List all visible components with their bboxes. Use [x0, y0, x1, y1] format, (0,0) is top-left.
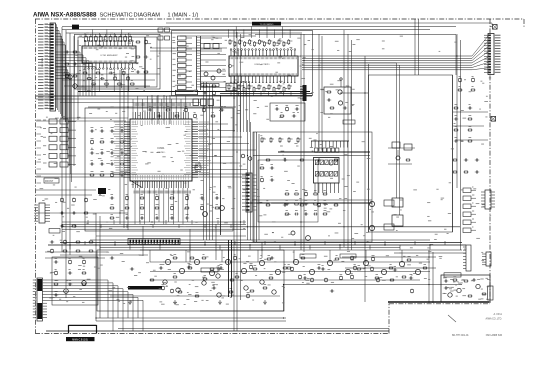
- part value label: [156, 118, 158, 120]
- part value label: [170, 255, 173, 257]
- part label: [156, 203, 159, 205]
- part value label: [46, 198, 49, 200]
- IC601 inner pin number: [180, 121, 182, 126]
- wire IC701 pin drop 5: [113, 33, 115, 37]
- part value label: [434, 238, 437, 240]
- part value label: [232, 294, 234, 296]
- part value label: [282, 272, 285, 274]
- part value label: [264, 258, 266, 260]
- connector CN501 pin 13: [45, 58, 51, 60]
- CN401 pin 3: [45, 209, 50, 211]
- part value label: [230, 297, 232, 299]
- comb tick 2: [314, 141, 316, 148]
- amp rail wire 3: [150, 279, 420, 281]
- part value label: [87, 89, 91, 91]
- part value label: [150, 58, 152, 60]
- part value label: [306, 282, 309, 284]
- switch S606 body b: [60, 162, 68, 167]
- IC601 right pin label: [199, 133, 208, 135]
- part label: [318, 263, 321, 265]
- wire IC601 top pin wire 1: [132, 99, 134, 112]
- part value label: [400, 209, 402, 211]
- IC601 inner pin number: [166, 121, 168, 126]
- part value label: [330, 164, 332, 166]
- part value label: [298, 55, 301, 57]
- resistor: [83, 72, 86, 74]
- junction: [261, 249, 262, 250]
- wire IC701 bottom drop 6: [121, 69, 123, 88]
- part value label: [115, 112, 117, 114]
- part value label: [260, 135, 262, 137]
- resistor: [140, 207, 143, 209]
- part label: [167, 105, 170, 107]
- part value label: [352, 43, 355, 45]
- part value label: [259, 201, 262, 203]
- part value label: [177, 288, 179, 290]
- IC801 bottom pin 14: [276, 76, 278, 83]
- IC601 top pin 6: [144, 112, 146, 119]
- electrolytic capacitor: [114, 77, 117, 80]
- IC601 right pin 4: [192, 128, 198, 130]
- part value label: [287, 180, 290, 182]
- connector CN501 pin 25: [45, 93, 51, 95]
- part value label: [92, 83, 95, 85]
- part value label: [254, 99, 257, 101]
- part value label: [120, 210, 123, 212]
- IC901 cell 3: [325, 160, 329, 165]
- ground: [174, 300, 176, 302]
- capacitor: [140, 217, 142, 220]
- part value label: [386, 255, 389, 257]
- part value label: [138, 272, 141, 274]
- part value label: [177, 150, 180, 152]
- part label: [186, 203, 188, 205]
- part value label: [125, 183, 127, 185]
- part value label: [125, 56, 127, 58]
- electrolytic capacitor: [318, 204, 321, 207]
- wire v39: [95, 213, 97, 321]
- transistor Q234: [217, 293, 221, 297]
- part label: [261, 163, 264, 165]
- CN301 pin 2: [133, 240, 135, 244]
- IF module box 3: [208, 99, 214, 106]
- IC901 pin 5: [330, 183, 332, 193]
- resistor: [407, 259, 410, 261]
- resistor R703: [99, 37, 102, 42]
- IC601 right pin 1: [192, 121, 198, 123]
- wire IC801 top drop 9: [289, 30, 291, 39]
- part value label: [106, 151, 109, 153]
- part label: [286, 104, 289, 106]
- IC701 bottom pin 10: [117, 63, 119, 68]
- switch S601 body b: [60, 119, 68, 124]
- IC901 body: [314, 158, 340, 184]
- Q902 label box: [384, 224, 394, 230]
- resistor: [100, 141, 103, 143]
- part value label: [209, 188, 211, 190]
- part value label: [90, 251, 92, 253]
- part value label: [62, 230, 65, 232]
- resistor: [279, 138, 281, 142]
- CN501 pin label 16: [38, 67, 44, 69]
- resistor: [267, 258, 270, 260]
- switch S603 body b: [60, 136, 68, 141]
- capacitor: [321, 268, 323, 271]
- IC601 bottom pin 19: [175, 181, 177, 188]
- svg-text:FRONT: FRONT: [45, 180, 54, 183]
- wire v3: [69, 33, 71, 255]
- part value label: [217, 99, 220, 101]
- part value label: [62, 216, 64, 218]
- part value label: [241, 36, 245, 38]
- transistor Q904: [291, 231, 295, 235]
- capacitor: [393, 269, 395, 272]
- CN402 pin 4: [43, 288, 48, 290]
- board outline top-right drop: [523, 19, 525, 27]
- small box top 1: [158, 28, 163, 32]
- part label: [43, 119, 46, 121]
- resistor: [254, 42, 256, 46]
- part value label: [279, 80, 283, 82]
- cable bus tie: [197, 44, 201, 46]
- IC601 bottom pin 13: [161, 181, 163, 188]
- wire IC601 right pin wire 1: [198, 123, 228, 125]
- part label: [299, 138, 301, 140]
- IC701 top pin 8: [110, 42, 112, 46]
- resistor: [375, 277, 378, 279]
- part value label: [71, 204, 74, 206]
- IC701 bottom pin 3: [91, 63, 93, 68]
- resistor: [100, 174, 103, 176]
- wire v17: [233, 30, 235, 331]
- IC901 mid cell 6: [336, 148, 339, 152]
- resistor: [173, 257, 176, 259]
- wire under IC801 b: [220, 92, 312, 94]
- resistor: [235, 276, 238, 278]
- IC601 inner pin number: [132, 174, 138, 176]
- pin number row: [229, 57, 231, 59]
- transistor Q214: [399, 261, 404, 266]
- resistor: [295, 203, 298, 205]
- CN302 pin 4: [300, 95, 303, 97]
- wire h8 dark: [278, 151, 370, 153]
- part value label: [344, 154, 348, 156]
- IC601 left pin 3: [124, 126, 130, 128]
- part value label: [382, 279, 386, 281]
- part value label: [447, 233, 449, 235]
- part label: [296, 104, 299, 106]
- part value label: [300, 88, 302, 90]
- part value label: [183, 110, 185, 112]
- part value label: [469, 91, 472, 93]
- IC601 inner pin number: [137, 175, 139, 180]
- part value label: [311, 49, 313, 51]
- IC901 cell 9: [329, 172, 333, 177]
- CN501 pin label 1: [38, 24, 44, 26]
- part value label: [260, 64, 263, 66]
- wire v30: [368, 64, 370, 232]
- IC701 bottom pin 6: [102, 63, 104, 68]
- resistor: [263, 287, 266, 289]
- part label: [156, 193, 158, 195]
- resistor: [402, 276, 405, 278]
- part value label: [230, 162, 232, 164]
- part value label: [340, 275, 342, 277]
- left margin label 7: [37, 161, 42, 163]
- IC601 inner pin number: [132, 126, 139, 128]
- part label: [459, 85, 461, 87]
- part value label: [481, 288, 483, 290]
- part value label: [328, 268, 331, 270]
- wire stub: [129, 245, 131, 250]
- resistor: [269, 277, 272, 279]
- electrolytic capacitor: [250, 266, 253, 269]
- transistor Q922: [248, 157, 252, 161]
- part label: [241, 40, 243, 42]
- part value label: [248, 255, 251, 257]
- wire v12: [169, 95, 171, 124]
- part value label: [82, 85, 84, 87]
- part value label: [411, 274, 413, 276]
- CN601 pin label 6: [495, 47, 501, 49]
- wire h30: [60, 254, 148, 256]
- part value label: [83, 265, 85, 267]
- part label: [122, 68, 124, 70]
- transistor Q203: [209, 270, 214, 275]
- cable bus tie: [197, 70, 201, 72]
- part value label: [139, 66, 142, 68]
- CN501 pin label 20: [38, 79, 44, 81]
- part value label: [183, 226, 185, 228]
- FRONT label box: [44, 178, 59, 183]
- part label: [354, 263, 356, 265]
- capacitor: [475, 171, 477, 174]
- electrolytic capacitor: [126, 197, 129, 200]
- wire mid bus 2: [62, 223, 246, 225]
- capacitor: [464, 159, 466, 162]
- part value label: [288, 233, 292, 235]
- part value label: [311, 92, 313, 94]
- IC601 left pin 6: [124, 133, 130, 135]
- part value label: [142, 150, 145, 152]
- resistor R700: [85, 37, 88, 42]
- amp label box 1: [300, 254, 316, 258]
- transistor Q235: [244, 286, 248, 290]
- wire top bus 1: [62, 26, 456, 28]
- part value label: [63, 201, 66, 203]
- part value label: [209, 186, 211, 188]
- part label: [472, 218, 474, 220]
- capacitor: [475, 159, 477, 162]
- resistor array R809: [178, 86, 187, 90]
- part value label: [241, 280, 243, 282]
- CN501 pin label 10: [38, 50, 44, 52]
- part label: [260, 85, 261, 87]
- resistor array R801: [178, 42, 187, 46]
- part label: [256, 42, 258, 44]
- CN601 pin label 5: [495, 45, 501, 47]
- left margin label 8: [37, 168, 42, 170]
- IC601 right pin label: [199, 128, 208, 130]
- svg-text:MAIN CN: MAIN CN: [41, 58, 44, 68]
- electrolytic capacitor: [185, 109, 188, 112]
- part label: [250, 262, 253, 264]
- part label: [290, 40, 292, 42]
- switch wire 5: [68, 155, 76, 157]
- CN402 fan wire 3: [47, 286, 118, 318]
- wire IC601 top pin wire 7: [161, 99, 163, 112]
- part label: [469, 136, 472, 138]
- resistor: [468, 118, 471, 120]
- wire lower bus 3: [48, 244, 466, 246]
- part value label: [83, 80, 85, 82]
- resistor: [233, 88, 235, 92]
- CN854 pin 3: [482, 258, 486, 260]
- wire lower bus 5: [140, 249, 462, 251]
- CPU region outline box: [85, 108, 233, 231]
- part value label: [231, 117, 233, 119]
- capacitor: [110, 130, 112, 133]
- part value label: [403, 255, 405, 257]
- CN402 pin 10: [43, 305, 48, 307]
- terminal lead: [340, 80, 342, 87]
- part value label: [363, 235, 365, 237]
- part value label: [86, 216, 88, 218]
- part value label: [263, 214, 266, 216]
- IC601 right pin 12: [192, 147, 198, 149]
- part value label: [330, 113, 333, 115]
- part value label: [400, 35, 403, 37]
- board outline bottom border right: [389, 303, 490, 305]
- wire IC601 top pin wire 10: [175, 96, 177, 112]
- wire h7: [88, 106, 236, 108]
- IC701 top pin 2: [88, 42, 90, 46]
- part label: [111, 148, 113, 150]
- amp rail wire 2: [150, 271, 430, 273]
- CN301 pin 4: [139, 240, 141, 244]
- part label: [131, 79, 133, 81]
- part value label: [264, 268, 266, 270]
- part value label: [330, 145, 334, 147]
- part value label: [150, 224, 153, 226]
- wire v7: [123, 72, 125, 228]
- switch S602 body: [49, 128, 57, 133]
- part value label: [441, 199, 443, 201]
- transistor Q612: [220, 206, 225, 211]
- IC701 bottom pin 7: [106, 63, 108, 68]
- PSU block outline: [441, 275, 490, 302]
- jack box outline: [324, 87, 351, 114]
- resistor: [468, 140, 471, 142]
- IC601 bottom pin 16: [168, 181, 170, 188]
- part label: [173, 69, 176, 71]
- connector CN501 pin 18: [45, 73, 51, 75]
- wire IC701 bottom drop 2: [91, 69, 93, 88]
- IC601 inner pin number: [149, 175, 151, 180]
- IC601 inner pin number: [156, 121, 158, 126]
- part value label: [221, 268, 224, 270]
- resistor: [212, 85, 215, 87]
- terminal ring: [340, 78, 342, 80]
- CN853 pin 2: [481, 194, 485, 196]
- wire stub: [309, 245, 311, 250]
- capacitor: [283, 159, 285, 162]
- wire fan 3: [472, 47, 488, 61]
- resistor R701: [90, 37, 93, 42]
- cable bus tie: [197, 42, 201, 44]
- resistor: [357, 268, 360, 270]
- part value label: [211, 39, 213, 41]
- part value label: [257, 195, 260, 197]
- cable bus tie: [197, 73, 201, 75]
- transistor Q701: [68, 75, 72, 79]
- junction: [428, 284, 429, 285]
- CN902 pin 7: [246, 195, 249, 197]
- CN601 pin 13: [488, 66, 491, 67]
- part value label: [202, 276, 206, 278]
- block C outline box: [172, 31, 313, 96]
- IC601 left pin label: [115, 123, 123, 125]
- wire IC801 top drop 6: [266, 27, 268, 39]
- CN301 pin 8: [151, 240, 153, 244]
- connector CN501 pin 10: [45, 50, 51, 52]
- connector CN402 body: [37, 278, 43, 321]
- electrolytic capacitor: [156, 197, 159, 200]
- resistor: [280, 115, 283, 117]
- part label: [173, 75, 176, 77]
- cable bus tie: [197, 60, 201, 62]
- part value label: [166, 127, 168, 129]
- part value label: [196, 295, 199, 297]
- resistor: [273, 88, 275, 92]
- part value label: [450, 290, 453, 292]
- cable bus tie: [197, 39, 201, 41]
- connector bar CN302: [303, 85, 307, 101]
- switch S606 body: [49, 162, 57, 167]
- transistor Q252: [82, 281, 87, 286]
- part value label: [269, 202, 271, 204]
- IC601 top pin 24: [187, 112, 189, 119]
- CN501 fan wire b2: [56, 55, 84, 96]
- CN601 pin 6: [488, 48, 491, 49]
- IC601 inner pin number: [132, 176, 139, 178]
- wire stub: [249, 245, 251, 250]
- capacitor: [270, 179, 272, 182]
- IC601 left pin label: [114, 121, 123, 123]
- IC901 cell 1: [315, 160, 319, 165]
- pin number row: [82, 61, 84, 63]
- svg-text:SCHEMATIC: SCHEMATIC: [100, 13, 133, 19]
- CN401 pin 1: [45, 204, 50, 206]
- IC601 inner pin number: [185, 147, 191, 149]
- IC601 inner pin number: [132, 167, 138, 169]
- electrolytic capacitor: [201, 207, 204, 210]
- resistor: [453, 159, 456, 161]
- IC601 inner pin number: [184, 152, 191, 154]
- part value label: [449, 288, 452, 290]
- wire IC801 top drop 3: [243, 30, 245, 39]
- wire h29: [96, 235, 246, 237]
- part value label: [187, 194, 189, 196]
- junction: [300, 221, 301, 222]
- part value label: [134, 69, 136, 71]
- CN601 pin label 1: [495, 34, 501, 36]
- part value label: [184, 303, 186, 305]
- capacitor: [468, 107, 470, 110]
- capacitor: [304, 203, 306, 206]
- part label: [176, 111, 178, 113]
- connector CN501 pin 5: [45, 35, 51, 37]
